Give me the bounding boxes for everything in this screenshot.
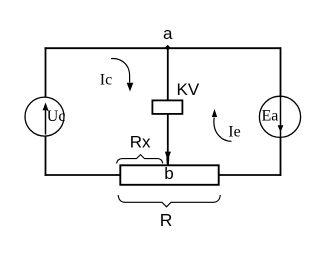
svg-text:Rx: Rx [130,133,151,152]
brace over Rx section [117,155,163,164]
svg-text:b: b [164,164,173,183]
svg-text:a: a [163,24,173,43]
wire top horizontal [45,47,282,49]
current arrow Ie (curved, arrowhead up) [212,109,232,141]
wire left vertical lower [45,136,47,176]
wire bottom right horizontal [219,174,282,176]
wire right vertical lower [280,138,282,176]
wire right vertical upper [280,47,282,97]
current arrow Ic (curved, arrowhead down) [111,58,133,91]
svg-text:Ea: Ea [262,108,279,125]
wire bottom left horizontal [45,174,121,176]
node a junction dot [165,45,171,51]
galvanometer KV box U1 [152,100,182,114]
svg-text:Ic: Ic [100,72,112,89]
svg-text:Uc: Uc [47,108,66,125]
source Uc symbol (circle with up arrow) [25,97,64,136]
wire left vertical upper [45,47,47,97]
svg-text:R: R [160,210,173,230]
svg-text:KV: KV [177,80,200,99]
source Ea symbol (circle with down arrow) [259,96,300,137]
wire center vertical KV to wiper [167,114,169,156]
resistor R (potentiometer body) [120,165,218,185]
svg-text:Ie: Ie [228,124,240,141]
brace under resistor R [118,195,220,207]
wiper arrowhead into resistor at node b [165,152,171,165]
wire center vertical a to KV [167,47,169,100]
